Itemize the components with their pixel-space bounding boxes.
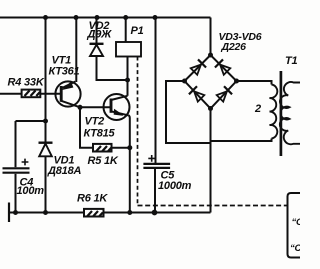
transistor VT1 circle (55, 81, 80, 106)
bottom rail left terminal bar (8, 203, 10, 223)
svg-text:“Се: “Се (292, 217, 301, 228)
node dot rail x45 (43, 15, 48, 20)
relay P1 coil box (116, 42, 141, 57)
node dot rail x76 (VT1 emitter) (74, 15, 79, 20)
wire VT2 base from VT1 collector (80, 106, 111, 108)
node dot bridge right (234, 79, 239, 84)
wire C5 top lead from rail (155, 18, 157, 164)
svg-text:“Сл: “Сл (290, 243, 300, 254)
zener VD1 top lead (45, 121, 47, 143)
svg-text:КТ815: КТ815 (84, 128, 116, 140)
diode VD4 top-right arm (215, 59, 231, 75)
diode VD5 bottom-left arm (189, 86, 205, 102)
wire VT1 emitter vertical to rail (75, 18, 77, 83)
wire bottom rail (9, 212, 211, 214)
node dot at 45,121 (43, 119, 48, 124)
wire top supply rail (0, 17, 211, 19)
node dot emitter/R5 (127, 145, 132, 150)
wire C5 bottom lead (154, 169, 156, 213)
capacitor C4 plus sign (22, 159, 29, 166)
wire P1 coil top lead (125, 18, 127, 43)
wire bridge left vertex loop down (166, 81, 211, 143)
node dot emitter wire at bottom rail (127, 210, 132, 215)
wire VT2 emitter down to rail (129, 115, 130, 212)
transformer core lines (280, 71, 283, 156)
node dot rail x155 (C5) (153, 15, 158, 20)
node dot VT1 collector / VT2 base (78, 105, 83, 110)
transistor VT2 collector diagonal (111, 96, 128, 100)
node dot rail C4 (13, 210, 18, 215)
dashed relay linkage vertical from P1 (137, 57, 139, 206)
transistor VT1 collector diagonal (61, 101, 80, 108)
svg-text:Д226: Д226 (221, 41, 247, 53)
diode VD3 top-left arm (190, 59, 206, 75)
diode VD2 cathode bar (90, 43, 104, 45)
diode VD6 bottom-right arm (216, 86, 232, 102)
wire C4 top lead (15, 121, 17, 167)
wire horizontal node y121 to C4 (16, 120, 46, 122)
wire R4 left lead from edge (0, 93, 22, 95)
dashed relay linkage horizontal to switch box (138, 205, 288, 207)
node dot C5 at bottom rail (152, 210, 158, 216)
svg-text:R4 33K: R4 33K (8, 77, 45, 89)
transistor VT2 base bar (110, 99, 113, 113)
svg-text:100m: 100m (17, 185, 45, 197)
zener VD1 triangle (39, 144, 52, 157)
zener VD1 bottom lead (45, 156, 47, 212)
wire R4 right lead to VT1 base (40, 93, 61, 95)
switch box bottom right (cut) (288, 193, 301, 258)
svg-text:Д818А: Д818А (47, 165, 81, 177)
wire VD1/C4 node vertical from rail (45, 18, 47, 122)
node dot rail x97 (VD2) (95, 15, 100, 20)
resistor R5 body (93, 144, 112, 152)
svg-text:2: 2 (254, 103, 261, 115)
transformer winding 2 coil (270, 85, 278, 139)
node dot bridge bottom (208, 106, 213, 111)
svg-text:VT2: VT2 (85, 116, 105, 128)
wire C4 bottom lead (15, 174, 17, 213)
node dot P1 coil bottom (125, 78, 130, 83)
svg-text:R6 1K: R6 1K (77, 193, 108, 205)
transistor VT1 base bar (60, 86, 63, 102)
wire R5 left lead from VT2 base node (80, 107, 93, 147)
zener VD1 cathode bar (39, 141, 53, 143)
resistor R6 body (84, 209, 104, 217)
capacitor C4 plates (3, 168, 30, 172)
svg-text:R5 1K: R5 1K (88, 155, 119, 167)
capacitor C5 plus sign (148, 155, 155, 162)
svg-text:Д9Ж: Д9Ж (87, 28, 113, 40)
capacitor C5 plates (143, 164, 170, 168)
svg-text:КТ361: КТ361 (49, 66, 80, 78)
wire bridge right vertex to winding 2 (237, 81, 272, 85)
node dot bridge left (182, 79, 187, 84)
svg-text:Р1: Р1 (131, 25, 144, 37)
wire bridge bottom vertex to bottom rail (210, 109, 212, 213)
svg-text:Т1: Т1 (285, 55, 298, 67)
node dot rail x126 (P1) (123, 15, 128, 20)
diode VD2 triangle (90, 45, 103, 56)
transformer primary winding (right, cut) (280, 82, 300, 144)
transistor VT2 circle (104, 94, 130, 120)
wire R5 right lead (112, 147, 130, 149)
wire VD2 cathode lead from rail (96, 18, 98, 44)
resistor R4 body (22, 90, 41, 98)
bridge diamond wires (185, 55, 237, 109)
transistor VT1 emitter diagonal with arrow to base (PNP) (61, 82, 75, 90)
transistor VT2 emitter diagonal with arrow (NPN) (111, 110, 129, 116)
node dot bridge top (208, 53, 213, 58)
wire VD2 anode lead down and right to P1 bottom node (97, 56, 128, 80)
svg-text:1000m: 1000m (158, 180, 192, 192)
wire winding 2 bottom lead (211, 139, 272, 142)
wire rail corner down to bridge top (210, 18, 212, 56)
wire P1 coil bottom lead (127, 57, 129, 96)
node dot rail VD1 (43, 210, 48, 215)
